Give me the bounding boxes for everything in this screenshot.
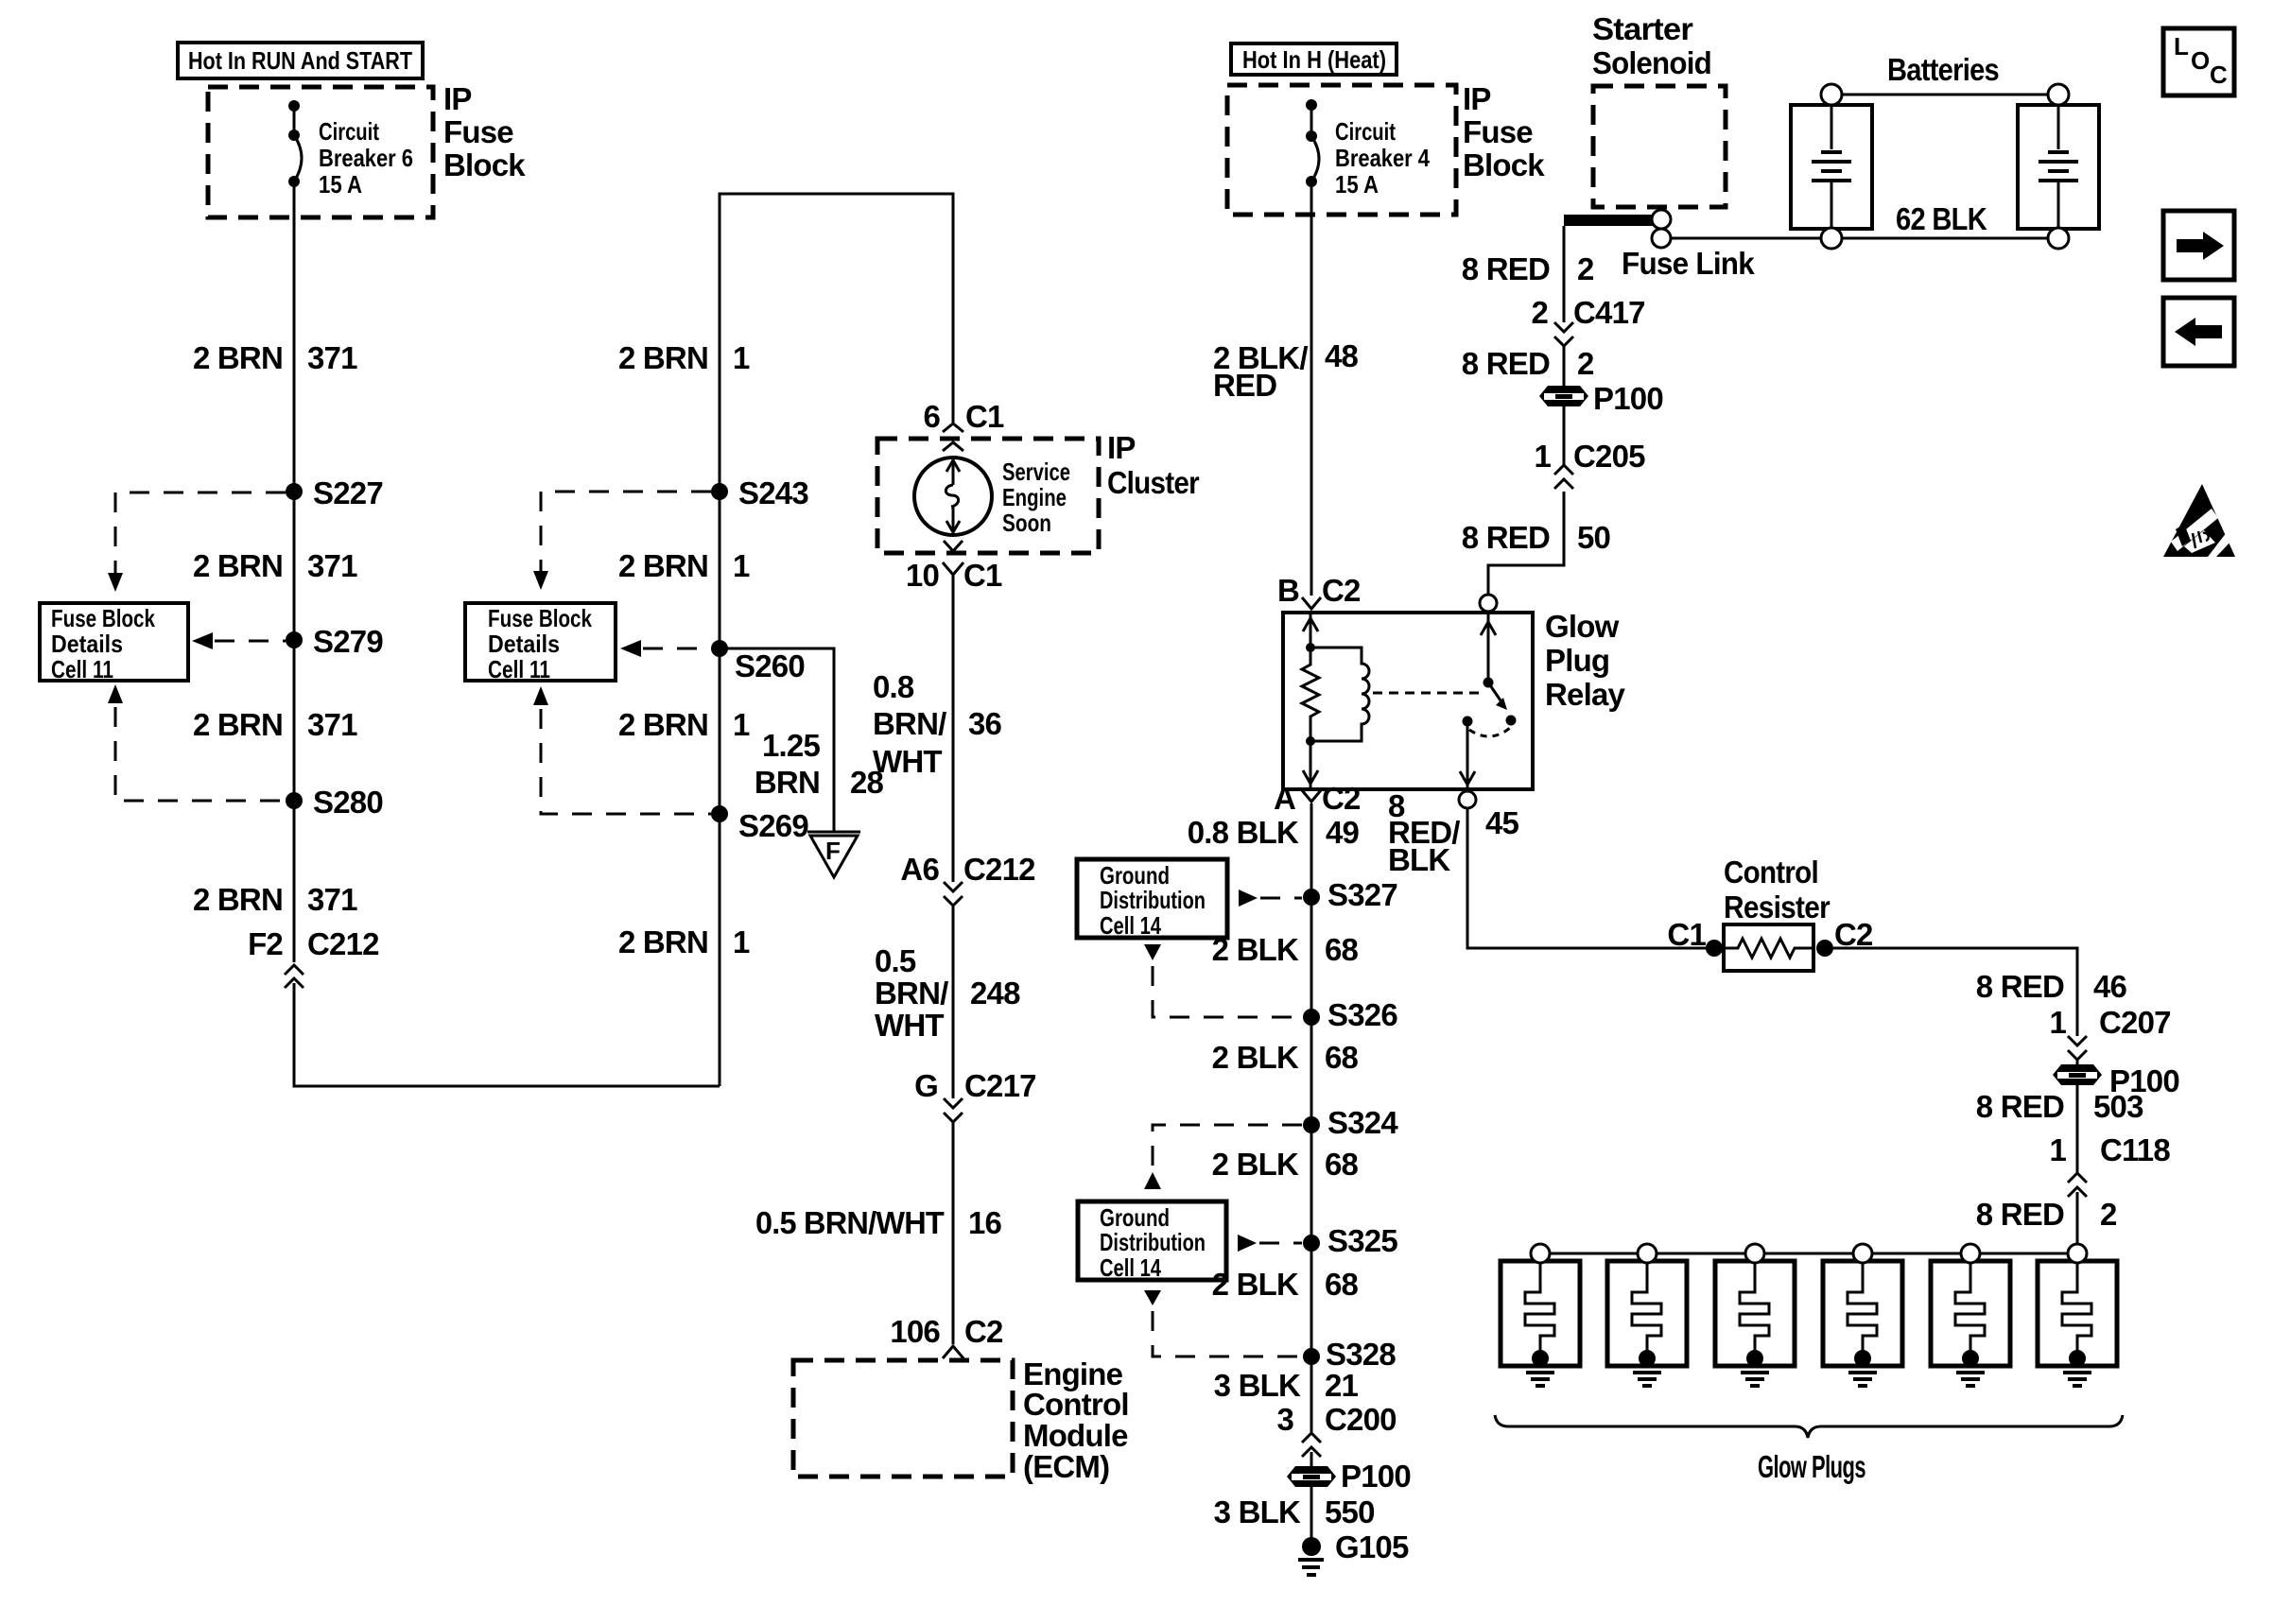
wire label 2 BRN 1 (col2 fourth) xyxy=(618,924,750,959)
svg-text:C1: C1 xyxy=(965,399,1004,434)
wire column 1 from breaker to connector C212 xyxy=(293,181,296,962)
svg-text:BRN: BRN xyxy=(755,765,820,800)
connector 6 C1 xyxy=(923,399,1004,434)
wire label 0.5 BRN/WHT 248 xyxy=(875,943,1020,1043)
splice S269 xyxy=(711,805,808,843)
glow plug 5 xyxy=(1931,1244,2010,1367)
wire breaker 4 down to relay B xyxy=(1310,181,1313,596)
relay switch input lead from terminal xyxy=(1481,613,1496,682)
svg-text:36: 36 xyxy=(968,706,1002,741)
fuse link terminals xyxy=(1652,210,1671,248)
svg-text:Engine: Engine xyxy=(1002,483,1067,511)
svg-text:S227: S227 xyxy=(313,475,383,510)
wire label 2 BRN 371 (second) xyxy=(193,548,357,583)
svg-text:2: 2 xyxy=(1577,251,1594,286)
svg-text:2 BRN: 2 BRN xyxy=(193,882,283,917)
wire C200 to P100 xyxy=(1310,1452,1313,1469)
svg-text:C2: C2 xyxy=(1322,573,1361,608)
svg-text:8 RED: 8 RED xyxy=(1976,969,2064,1004)
wire label 0.8 BRN/WHT 36 xyxy=(873,669,1002,779)
dashed arrow from S279 to box 1 xyxy=(192,632,286,649)
glow plug 3 xyxy=(1715,1244,1795,1367)
svg-text:C1: C1 xyxy=(963,558,1002,593)
svg-text:45: 45 xyxy=(1485,805,1519,840)
svg-text:P100: P100 xyxy=(1341,1459,1411,1494)
svg-text:0.5: 0.5 xyxy=(875,943,916,978)
svg-text:IP: IP xyxy=(443,81,472,116)
svg-text:8 RED: 8 RED xyxy=(1976,1089,2064,1124)
wire label 8 RED 46 xyxy=(1976,969,2127,1004)
svg-text:Distribution: Distribution xyxy=(1100,1228,1206,1256)
relay top terminal xyxy=(1480,595,1497,612)
svg-text:BRN/: BRN/ xyxy=(875,976,948,1011)
LOC reference box xyxy=(2163,28,2234,95)
svg-text:Fuse Block: Fuse Block xyxy=(51,604,155,632)
svg-text:1: 1 xyxy=(733,924,750,959)
battery 1 xyxy=(1791,84,1872,249)
grommet P100 (right) xyxy=(2053,1063,2179,1098)
Service Engine Soon lamp xyxy=(914,458,992,535)
svg-text:2 BRN: 2 BRN xyxy=(193,340,283,375)
relay coil winding xyxy=(1310,648,1369,741)
svg-text:48: 48 xyxy=(1325,338,1359,373)
label "Circuit Breaker 4 15 A" xyxy=(1335,117,1430,199)
ground of glow plug 3 xyxy=(1741,1373,1769,1386)
svg-text:3 BLK: 3 BLK xyxy=(1214,1494,1301,1529)
wire G to 106 xyxy=(952,1122,955,1344)
wire column 3 lamp to A6 connector xyxy=(952,575,955,882)
svg-text:0.5 BRN/WHT: 0.5 BRN/WHT xyxy=(755,1205,945,1240)
svg-text:371: 371 xyxy=(307,707,357,742)
relay output lead to bottom terminal xyxy=(1460,721,1475,789)
label "Control Resister" xyxy=(1724,855,1831,924)
svg-text:WHT: WHT xyxy=(873,744,942,779)
label "Circuit Breaker 6 15 A" xyxy=(319,117,413,199)
label "IP Fuse Block" (right) xyxy=(1463,81,1545,182)
dashed arrow below box 1 to S326 xyxy=(1144,944,1302,1017)
svg-text:Hot In H (Heat): Hot In H (Heat) xyxy=(1242,45,1386,74)
svg-text:A: A xyxy=(1274,781,1295,816)
wire column 2 up to top and over to IP cluster xyxy=(720,194,953,1086)
label "Engine Control Module (ECM)" xyxy=(1023,1356,1129,1484)
Fuse Block Details Cell 11 box 1 xyxy=(40,603,188,683)
svg-text:Glow Plugs: Glow Plugs xyxy=(1758,1449,1865,1484)
svg-text:S280: S280 xyxy=(313,785,383,820)
svg-text:Relay: Relay xyxy=(1545,677,1626,712)
connector A C2 below relay xyxy=(1274,781,1361,816)
connector A6 C212 xyxy=(900,852,1035,906)
svg-text:1: 1 xyxy=(2049,1132,2066,1167)
wire label 2 BLK 68 (a) xyxy=(1212,932,1359,967)
ground G105 xyxy=(1298,1529,1409,1575)
svg-text:P100: P100 xyxy=(1593,381,1663,416)
grommet P100 (bottom) xyxy=(1287,1459,1411,1494)
wire label 0.5 BRN/WHT 16 xyxy=(755,1205,1002,1240)
label "Batteries" xyxy=(1887,52,1999,87)
svg-text:46: 46 xyxy=(2093,969,2127,1004)
svg-text:0.8 BLK: 0.8 BLK xyxy=(1188,815,1299,850)
wire fuse link down to C417 xyxy=(1563,226,1566,322)
svg-text:RED: RED xyxy=(1213,368,1276,403)
dashed arrow from box 2 to S325 xyxy=(1238,1235,1302,1252)
svg-text:503: 503 xyxy=(2093,1089,2143,1124)
connector 2 C417 xyxy=(1531,295,1644,346)
backward arrow box xyxy=(2163,298,2234,366)
svg-text:62 BLK: 62 BLK xyxy=(1896,201,1987,236)
splice S327 xyxy=(1303,877,1397,912)
dashed arrow from S269 up into box 2 xyxy=(533,686,711,814)
wire label 2 BRN 1 (col2 third) xyxy=(618,707,750,742)
svg-text:2 BRN: 2 BRN xyxy=(193,548,283,583)
svg-text:106: 106 xyxy=(890,1314,940,1349)
svg-text:C212: C212 xyxy=(307,926,379,961)
svg-text:Fuse: Fuse xyxy=(1463,114,1533,149)
svg-text:Control: Control xyxy=(1023,1387,1129,1422)
IP Fuse Block dashed box (right) xyxy=(1227,85,1456,215)
dashed arrow from S260 to box 2 xyxy=(620,640,711,657)
wire label 8 RED/BLK 45 xyxy=(1388,788,1519,877)
svg-text:WHT: WHT xyxy=(875,1008,944,1043)
svg-text:1.25: 1.25 xyxy=(762,728,820,763)
relay coil left lead with arrows xyxy=(1303,613,1318,789)
svg-text:8 RED: 8 RED xyxy=(1976,1197,2064,1232)
fuse symbol F (triangle) xyxy=(807,832,860,877)
svg-text:S326: S326 xyxy=(1327,997,1397,1032)
Ground Distribution Cell 14 box 2 xyxy=(1078,1201,1226,1282)
svg-text:3 BLK: 3 BLK xyxy=(1214,1368,1301,1403)
svg-text:2 BRN: 2 BRN xyxy=(618,707,708,742)
svg-text:Cell 11: Cell 11 xyxy=(488,655,550,683)
wire C2 right and down to glow plugs xyxy=(1833,948,2077,1036)
svg-text:C417: C417 xyxy=(1573,295,1645,330)
svg-text:C118: C118 xyxy=(2100,1132,2170,1167)
svg-text:Breaker 6: Breaker 6 xyxy=(319,144,413,172)
wire label 3 BLK 21 xyxy=(1214,1368,1359,1403)
svg-text:0.8: 0.8 xyxy=(873,669,914,704)
svg-text:S269: S269 xyxy=(738,808,808,843)
wire C118 down to glow plug rail xyxy=(2076,1192,2079,1244)
svg-text:Glow: Glow xyxy=(1545,609,1620,644)
wire from batteries to fuse link xyxy=(1671,237,2048,240)
svg-text:C217: C217 xyxy=(964,1068,1036,1103)
svg-text:S327: S327 xyxy=(1327,877,1397,912)
svg-text:68: 68 xyxy=(1325,932,1359,967)
svg-text:Service: Service xyxy=(1002,458,1070,486)
wire label 2 BLK/RED 48 xyxy=(1213,338,1359,403)
svg-text:Plug: Plug xyxy=(1545,643,1609,678)
svg-text:Cell 14: Cell 14 xyxy=(1100,1253,1161,1282)
splice S324 xyxy=(1303,1105,1398,1140)
svg-text:3: 3 xyxy=(1276,1402,1293,1437)
label "Glow Plug Relay" xyxy=(1545,609,1626,712)
connector 1 C205 xyxy=(1534,439,1645,489)
svg-text:C1: C1 xyxy=(1667,917,1706,952)
svg-text:8 RED: 8 RED xyxy=(1462,520,1550,555)
svg-text:B: B xyxy=(1277,573,1299,608)
splice S328 xyxy=(1303,1337,1396,1372)
svg-text:Fuse Link: Fuse Link xyxy=(1622,246,1755,281)
wire from C205 down to relay top terminal xyxy=(1488,492,1564,595)
wire label 62 BLK xyxy=(1896,201,1987,236)
svg-text:50: 50 xyxy=(1577,520,1610,555)
connector C1 of control resister xyxy=(1667,917,1723,957)
svg-text:2 BLK: 2 BLK xyxy=(1212,1147,1299,1182)
svg-text:C200: C200 xyxy=(1325,1402,1397,1437)
relay resistor (vertical zigzag) xyxy=(1302,648,1319,741)
svg-text:Details: Details xyxy=(488,630,560,658)
dashed arrow from box 1 to S327 xyxy=(1239,890,1302,907)
brace under glow plugs xyxy=(1495,1415,2123,1438)
svg-text:G: G xyxy=(914,1068,938,1103)
svg-text:Cluster: Cluster xyxy=(1107,465,1200,500)
connector 106 C2 xyxy=(890,1314,1003,1358)
svg-text:2 BRN: 2 BRN xyxy=(193,707,283,742)
svg-text:F: F xyxy=(825,837,841,865)
connector C2 of control resister xyxy=(1816,917,1873,957)
svg-text:BLK: BLK xyxy=(1388,842,1450,877)
label box "Hot In H (Heat)" xyxy=(1231,43,1397,75)
svg-text:371: 371 xyxy=(307,882,357,917)
svg-text:IP: IP xyxy=(1107,430,1136,465)
wire A6 to G xyxy=(952,906,955,1098)
splice S260 xyxy=(711,640,805,683)
svg-text:A6: A6 xyxy=(900,852,939,887)
connector 10 C1 xyxy=(906,541,1002,593)
dashed arrow below box 2 to S328 xyxy=(1144,1290,1302,1356)
splice S280 xyxy=(286,785,383,820)
svg-text:2 BLK: 2 BLK xyxy=(1212,932,1299,967)
svg-text:2: 2 xyxy=(2100,1197,2117,1232)
svg-text:S260: S260 xyxy=(735,648,805,683)
svg-text:Fuse Block: Fuse Block xyxy=(488,604,592,632)
splice S227 xyxy=(286,475,383,510)
svg-text:O: O xyxy=(2191,46,2210,75)
svg-text:Block: Block xyxy=(1463,147,1545,182)
svg-text:C2: C2 xyxy=(1834,917,1873,952)
svg-text:Cell 11: Cell 11 xyxy=(51,655,113,683)
svg-text:10: 10 xyxy=(906,558,939,593)
connector G C217 xyxy=(914,1068,1036,1122)
svg-text:15 A: 15 A xyxy=(319,170,362,199)
svg-text:Cell 14: Cell 14 xyxy=(1100,911,1161,940)
svg-text:Soon: Soon xyxy=(1002,509,1051,537)
svg-text:1: 1 xyxy=(2049,1005,2066,1040)
glow plug 2 xyxy=(1607,1244,1687,1367)
svg-text:Resister: Resister xyxy=(1724,890,1831,924)
svg-text:Control: Control xyxy=(1724,855,1818,890)
svg-text:Circuit: Circuit xyxy=(1335,117,1396,146)
svg-text:68: 68 xyxy=(1325,1040,1359,1075)
svg-text:L: L xyxy=(2174,32,2189,60)
wire label 3 BLK 550 xyxy=(1214,1494,1375,1529)
wire label 8 RED 2 (first) xyxy=(1462,251,1594,286)
Ground Distribution Cell 14 box 1 xyxy=(1077,859,1227,940)
label "Service Engine Soon" xyxy=(1002,458,1070,537)
svg-text:S279: S279 xyxy=(313,624,383,659)
svg-text:2 BRN: 2 BRN xyxy=(618,548,708,583)
wire column 4 from A C2 to ground xyxy=(1310,803,1313,1432)
svg-text:Details: Details xyxy=(51,630,123,658)
svg-text:Starter: Starter xyxy=(1592,11,1693,46)
forward arrow box xyxy=(2163,211,2234,280)
ESD warning symbol xyxy=(2163,484,2235,557)
wire label 1.25 BRN 28 xyxy=(755,728,884,800)
svg-text:IP: IP xyxy=(1463,81,1491,116)
splice S326 xyxy=(1303,997,1397,1032)
fuse link thick bar xyxy=(1564,215,1755,281)
wire relay output down and right to control resistor xyxy=(1467,808,1707,948)
svg-text:Solenoid: Solenoid xyxy=(1592,45,1711,80)
svg-text:2: 2 xyxy=(1577,346,1594,381)
svg-text:15 A: 15 A xyxy=(1335,170,1379,199)
wire label 0.8 BLK 49 xyxy=(1188,815,1360,850)
wire label 2 BRN 371 (fourth) xyxy=(193,882,357,917)
wire from C212 down and right to column 2 xyxy=(294,983,720,1086)
svg-text:Fuse: Fuse xyxy=(443,114,513,149)
wire C207 to P100 xyxy=(2076,1060,2079,1066)
svg-text:6: 6 xyxy=(923,399,940,434)
svg-text:1: 1 xyxy=(1534,439,1551,474)
dashed arrow from S243 to Fuse Block Details box 2 xyxy=(533,492,711,590)
relay bottom terminal xyxy=(1459,791,1476,808)
svg-text:1: 1 xyxy=(733,707,750,742)
svg-text:371: 371 xyxy=(307,340,357,375)
svg-text:68: 68 xyxy=(1325,1147,1359,1182)
svg-text:8 RED: 8 RED xyxy=(1462,346,1550,381)
branch wire from S260 to fuse F xyxy=(720,648,834,832)
label "Starter Solenoid" xyxy=(1592,11,1711,80)
IP Cluster dashed box xyxy=(877,439,1099,553)
glow plug supply rail xyxy=(1540,1253,2077,1255)
svg-text:Module: Module xyxy=(1023,1418,1128,1453)
svg-text:550: 550 xyxy=(1325,1494,1375,1529)
wire label 8 RED 2 (right) xyxy=(1976,1197,2117,1232)
ground of glow plug 6 xyxy=(2063,1373,2091,1386)
wire label 2 BLK 68 (d) xyxy=(1212,1267,1359,1302)
dashed arrow from S280 up into box 1 xyxy=(108,684,286,801)
connector half inside cluster box xyxy=(943,442,963,451)
svg-text:8 RED: 8 RED xyxy=(1462,251,1550,286)
ground of glow plug 2 xyxy=(1633,1373,1661,1386)
grommet P100 (top) xyxy=(1539,381,1663,416)
svg-text:1: 1 xyxy=(733,340,750,375)
battery 2 xyxy=(2018,84,2099,249)
svg-text:Circuit: Circuit xyxy=(319,117,379,146)
circuit breaker 6 symbol xyxy=(288,100,302,187)
wire label 8 RED 50 xyxy=(1462,520,1610,555)
svg-text:16: 16 xyxy=(968,1205,1002,1240)
svg-text:49: 49 xyxy=(1326,815,1360,850)
connector B C2 xyxy=(1277,573,1361,609)
splice S325 xyxy=(1303,1223,1397,1258)
dashed arrow from S227 to Fuse Block Details box 1 xyxy=(108,492,286,592)
wire label 8 RED 2 (second) xyxy=(1462,346,1594,381)
Glow Plug Relay box xyxy=(1283,613,1533,789)
wire label 2 BRN 1 (col2 first) xyxy=(618,340,750,375)
ground of glow plug 1 xyxy=(1526,1373,1554,1386)
wire between battery tops xyxy=(1842,94,2048,96)
svg-text:C: C xyxy=(2210,60,2228,89)
wire label 2 BLK 68 (b) xyxy=(1212,1040,1359,1075)
wire P100 to G105 xyxy=(1310,1485,1313,1539)
svg-text:(ECM): (ECM) xyxy=(1023,1449,1109,1484)
wire label 2 BRN 371 (third) xyxy=(193,707,357,742)
wire label 2 BLK 68 (c) xyxy=(1212,1147,1359,1182)
svg-text:2 BLK: 2 BLK xyxy=(1212,1267,1299,1302)
wire label 2 BRN 1 (col2 second) xyxy=(618,548,750,583)
connector F2 C212 xyxy=(248,926,379,988)
svg-text:2 BRN: 2 BRN xyxy=(618,340,708,375)
label "IP Fuse Block" (left) xyxy=(443,81,526,182)
glow plug 1 xyxy=(1501,1244,1580,1367)
wire label 8 RED 503 xyxy=(1976,1089,2143,1124)
svg-text:G105: G105 xyxy=(1335,1529,1409,1564)
label "Glow Plugs" xyxy=(1758,1449,1865,1484)
svg-text:Breaker 4: Breaker 4 xyxy=(1335,144,1430,172)
svg-text:C207: C207 xyxy=(2099,1005,2171,1040)
svg-text:S325: S325 xyxy=(1327,1223,1397,1258)
svg-text:2 BLK: 2 BLK xyxy=(1212,1040,1299,1075)
Engine Control Module dashed box xyxy=(793,1360,1013,1477)
splice S243 xyxy=(711,475,808,510)
relay actuation dashed link xyxy=(1373,692,1481,695)
wire P100 to C118 xyxy=(2076,1083,2079,1173)
svg-text:BRN/: BRN/ xyxy=(873,706,946,741)
ground of glow plug 4 xyxy=(1848,1373,1877,1386)
svg-text:371: 371 xyxy=(307,548,357,583)
Starter Solenoid dashed box xyxy=(1593,86,1726,207)
ground of glow plug 5 xyxy=(1956,1373,1985,1386)
connector 3 C200 xyxy=(1276,1402,1396,1457)
svg-text:F2: F2 xyxy=(248,926,283,961)
svg-text:2: 2 xyxy=(1531,295,1548,330)
svg-text:Distribution: Distribution xyxy=(1100,886,1206,914)
svg-text:68: 68 xyxy=(1325,1267,1359,1302)
svg-text:Hot In RUN And START: Hot In RUN And START xyxy=(188,46,412,75)
connector 1 C118 xyxy=(2049,1132,2170,1197)
wire P100 to C205 xyxy=(1563,405,1566,465)
IP Fuse Block dashed box (left) xyxy=(208,87,433,217)
dashed arrow from S324 to box 2 xyxy=(1144,1125,1302,1189)
svg-text:C205: C205 xyxy=(1573,439,1645,474)
svg-text:C2: C2 xyxy=(1322,781,1361,816)
wire label 2 BRN 371 (first) xyxy=(193,340,357,375)
label box "Hot In RUN And START" xyxy=(178,43,423,78)
svg-text:S324: S324 xyxy=(1327,1105,1398,1140)
wire C417 to P100 xyxy=(1563,346,1566,388)
control resister box and element xyxy=(1722,924,1815,971)
svg-text:21: 21 xyxy=(1325,1368,1359,1403)
circuit breaker 4 symbol xyxy=(1306,99,1319,187)
svg-text:1: 1 xyxy=(733,548,750,583)
svg-text:Batteries: Batteries xyxy=(1887,52,1999,87)
connector 1 C207 xyxy=(2049,1005,2170,1060)
svg-text:S243: S243 xyxy=(738,475,808,510)
svg-text:Block: Block xyxy=(443,147,526,182)
relay switch arm xyxy=(1463,678,1517,737)
splice S279 xyxy=(286,624,383,659)
glow plug 6 xyxy=(2038,1244,2117,1367)
Fuse Block Details Cell 11 box 2 xyxy=(465,603,616,683)
svg-text:248: 248 xyxy=(970,976,1020,1011)
svg-text:C212: C212 xyxy=(963,852,1035,887)
svg-text:C2: C2 xyxy=(964,1314,1003,1349)
glow plug 4 xyxy=(1823,1244,1902,1367)
svg-text:2 BRN: 2 BRN xyxy=(618,924,708,959)
svg-text:S328: S328 xyxy=(1326,1337,1396,1372)
label "IP Cluster" xyxy=(1107,430,1200,500)
